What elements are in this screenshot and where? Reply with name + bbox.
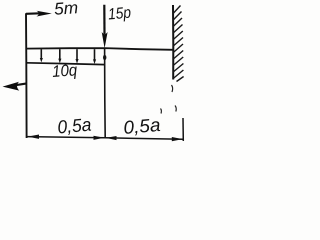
distributed load lower line <box>26 63 105 65</box>
wire left vertical column <box>25 13 28 138</box>
dimension arrow left end <box>28 135 39 139</box>
force arrow 5m (top, pointing right) <box>26 11 52 17</box>
stray apostrophe mark <box>160 109 163 114</box>
dimension line bottom <box>27 137 183 140</box>
distributed load arrow 3 <box>76 49 79 63</box>
wall support (fixed) vertical line <box>172 5 174 80</box>
stray mark right <box>175 106 176 112</box>
force arrow 15p (vertical, pointing down) <box>102 5 108 48</box>
dimension extension right <box>182 118 184 141</box>
wire middle vertical (under 15p down to dimension line) <box>104 48 107 138</box>
wall hatching <box>173 6 184 82</box>
svg-text:0,5a: 0,5a <box>57 114 93 138</box>
dimension arrow mid-right (points left into middle line) <box>106 136 117 140</box>
distributed load arrow 2 <box>58 49 61 63</box>
dimension arrow right end <box>172 137 183 141</box>
svg-text:5m: 5m <box>53 0 78 19</box>
svg-text:10q: 10q <box>52 61 79 81</box>
junction blob at beam / 15p line <box>103 55 106 60</box>
stray pen mark near wall bottom <box>172 85 173 92</box>
svg-text:15p: 15p <box>107 5 131 24</box>
beam (top chord) from left column to wall <box>26 48 174 50</box>
distributed load arrow 1 <box>40 49 43 62</box>
distributed load arrow 4 <box>93 49 96 64</box>
force arrow at left mid (pointing left) <box>3 82 27 91</box>
dimension arrow mid-left (points right into middle line) <box>94 136 105 140</box>
svg-text:0,5a: 0,5a <box>123 114 162 138</box>
